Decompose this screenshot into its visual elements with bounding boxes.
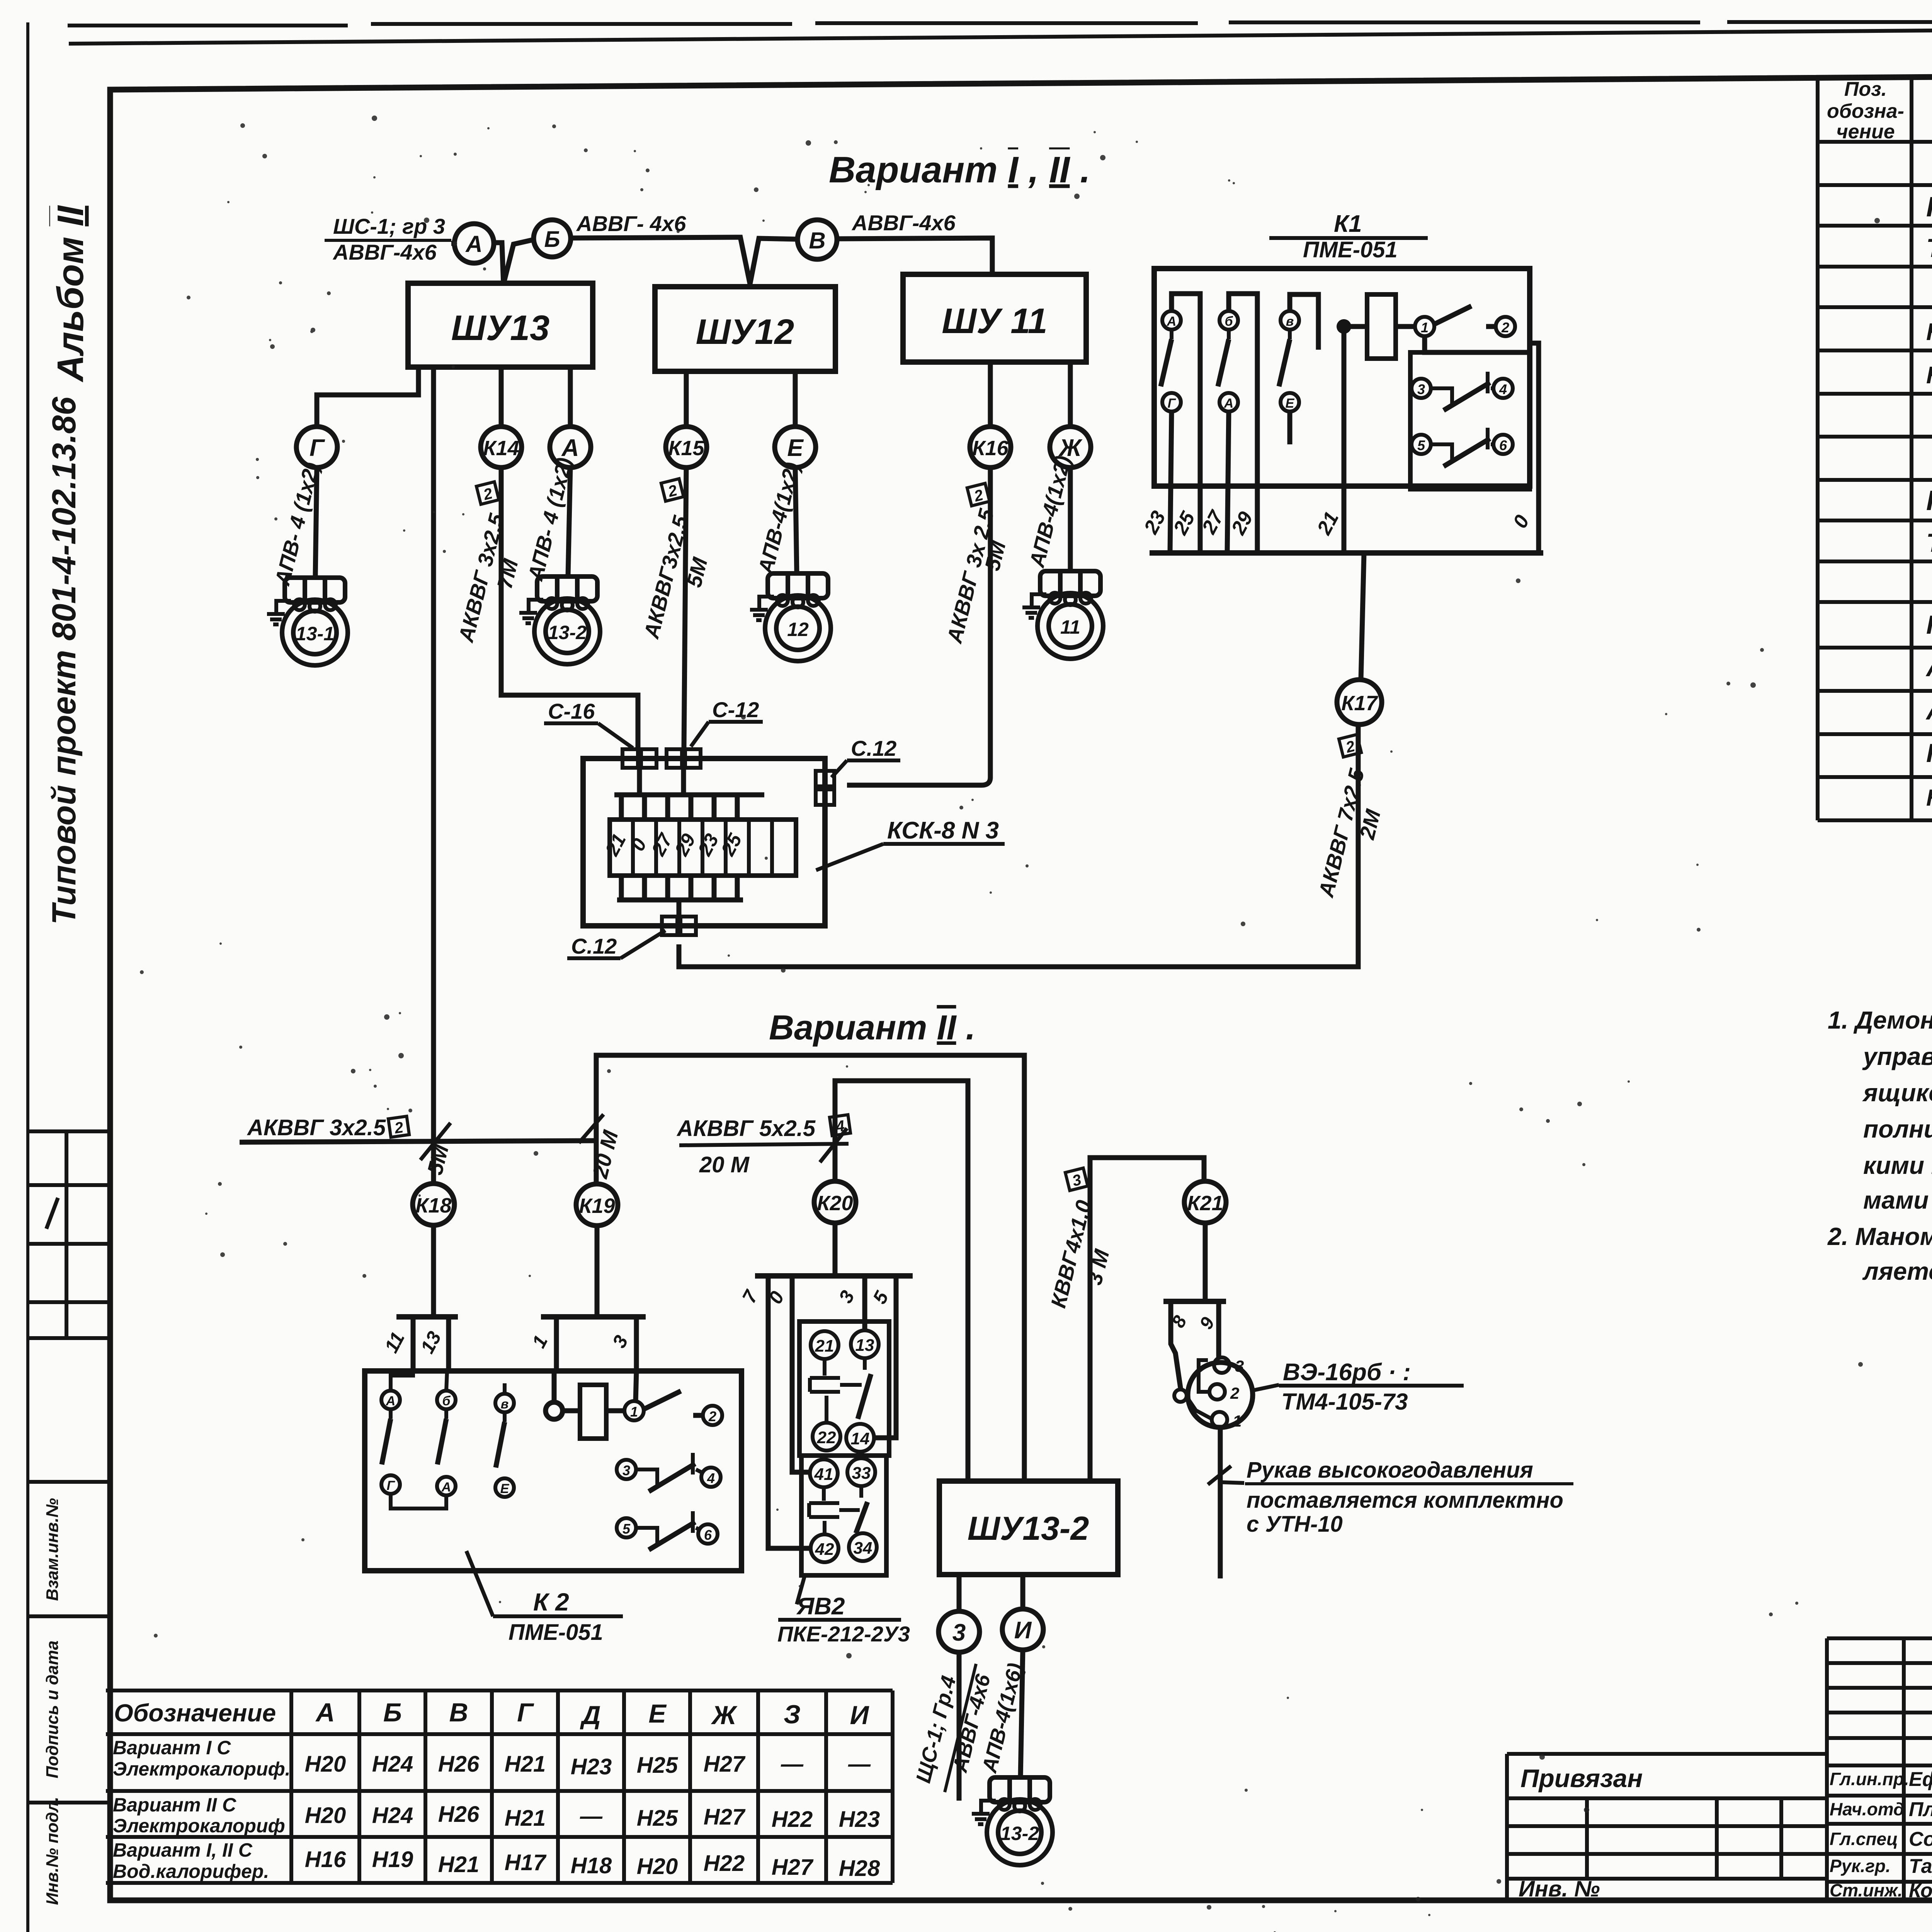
svg-text:Вариант II .: Вариант II . <box>769 1009 975 1047</box>
wire 0 <box>792 1276 810 1472</box>
svg-text:полнить в соответствии со схем: полнить в соответствии со схемами электр… <box>1863 1115 1932 1143</box>
svg-text:Н26: Н26 <box>438 1802 480 1827</box>
svg-text:б: б <box>442 1394 451 1408</box>
wire ШУ11 to Ж <box>1068 362 1073 427</box>
terminal С-12 on box top <box>667 749 701 768</box>
svg-text:5: 5 <box>622 1521 631 1537</box>
contactor К2 box <box>365 1371 742 1571</box>
К1 terminal labels <box>1139 507 1534 539</box>
svg-text:Н16: Н16 <box>305 1847 346 1872</box>
node Б <box>534 220 571 257</box>
node К16 <box>970 427 1011 468</box>
node К18 <box>413 1184 454 1225</box>
svg-text:Н25: Н25 <box>637 1753 678 1778</box>
svg-text:ящике управления установкой УТ: ящике управления установкой УТН-10 поз. … <box>1862 1079 1932 1107</box>
svg-text:Рукав высокогодавления: Рукав высокогодавления <box>1247 1458 1533 1483</box>
svg-text:Н22: Н22 <box>704 1851 745 1876</box>
svg-text:АВВГ-4х6: АВВГ-4х6 <box>332 240 437 264</box>
svg-text:Поз.: Поз. <box>1844 78 1887 100</box>
svg-text:ТУ36.1753-75: ТУ36.1753-75 <box>1926 528 1932 558</box>
wire ШУ13-2 to И <box>1020 1575 1026 1609</box>
svg-text:Н20: Н20 <box>305 1803 346 1828</box>
wire ШУ13 to К14 <box>499 367 504 427</box>
svg-text:К 2: К 2 <box>533 1588 569 1616</box>
svg-text:К15: К15 <box>668 437 704 460</box>
wire feeder to A <box>451 241 454 246</box>
cable mark 2 on К15 wire <box>661 479 684 502</box>
svg-text:Н17: Н17 <box>505 1850 547 1875</box>
svg-text:Коробка соединительная КСК-8: Коробка соединительная КСК-8 <box>1926 485 1932 516</box>
К1 contact 5-6 <box>1412 428 1513 466</box>
svg-text:Инв. №: Инв. № <box>1519 1876 1600 1901</box>
svg-text:А: А <box>315 1698 335 1727</box>
strip top bus and stubs <box>614 768 764 820</box>
label рукав высокого давления <box>1221 1458 1573 1537</box>
wire К19 to К2 bar <box>595 1226 600 1317</box>
svg-text:Н22: Н22 <box>772 1807 813 1832</box>
svg-text:Вариант I С: Вариант I С <box>113 1737 231 1759</box>
svg-text:Альбом II: Альбом II <box>50 205 91 382</box>
label С-12 right <box>832 736 900 777</box>
label С-12 top <box>691 697 763 747</box>
svg-text:Н21: Н21 <box>505 1806 546 1831</box>
tick at К18 <box>420 1123 451 1160</box>
cable label АКВВГ3х2.5 2 <box>247 1115 409 1140</box>
svg-text:АКВВГ 5х2.5: АКВВГ 5х2.5 <box>676 1116 816 1141</box>
wire 3 <box>634 1317 639 1371</box>
motor 12 <box>750 573 831 661</box>
label С-12 bottom <box>567 930 665 958</box>
svg-text:Обозначение: Обозначение <box>114 1699 276 1727</box>
button block ЯВ2 upper <box>799 1321 889 1456</box>
svg-text:АВВГ- 4х6: АВВГ- 4х6 <box>576 211 686 236</box>
svg-text:3: 3 <box>1417 381 1425 397</box>
label ВЭ-16рб / ТМ4-105-73 <box>1253 1359 1464 1415</box>
К1 bottom terminal bus <box>1150 550 1543 556</box>
svg-text:11: 11 <box>1060 616 1080 638</box>
wire К16 down to КСК-8 right clamp <box>847 468 990 785</box>
svg-text:К14: К14 <box>483 437 519 460</box>
svg-text:—: — <box>848 1752 871 1777</box>
svg-text:АКВВГ 7х2.5 мм²: АКВВГ 7х2.5 мм² <box>1925 653 1932 682</box>
wire В to ШУ11 <box>837 238 992 274</box>
svg-text:К19: К19 <box>579 1194 615 1218</box>
wire ШУ12 to Е <box>793 371 798 427</box>
К1 aux contact box <box>1410 352 1530 489</box>
svg-text:ляется комплектно с установ: ляется комплектно с установкой УТН-10. <box>1862 1257 1932 1285</box>
terminal С-12 on box right <box>816 771 834 805</box>
svg-text:Н20: Н20 <box>637 1854 678 1879</box>
svg-text:Н23: Н23 <box>839 1807 880 1832</box>
wire К14 down right to КСК-8 <box>501 468 638 749</box>
svg-text:КСК-8 N 3: КСК-8 N 3 <box>887 817 999 844</box>
cable mark 3 on riser <box>1065 1168 1088 1191</box>
svg-text:Взам.инв.№: Взам.инв.№ <box>43 1498 62 1601</box>
svg-text:Комарова: Комарова <box>1909 1879 1932 1902</box>
wire К21 to ВЭ bar <box>1203 1223 1208 1301</box>
wire 7 <box>768 1276 811 1548</box>
svg-text:12: 12 <box>787 619 809 640</box>
node К14 <box>481 427 522 468</box>
svg-text:3: 3 <box>622 1463 630 1478</box>
svg-text:К21: К21 <box>1187 1192 1223 1215</box>
wire К20 to ЯВ2 bar <box>833 1223 838 1276</box>
svg-text:Н19: Н19 <box>372 1847 413 1872</box>
svg-text:Н21: Н21 <box>438 1852 479 1877</box>
node К17 <box>1337 680 1382 724</box>
svg-text:С-12: С-12 <box>712 697 759 722</box>
svg-text:А: А <box>1224 396 1234 411</box>
svg-text:33: 33 <box>852 1464 871 1483</box>
svg-text:Ст.инж.: Ст.инж. <box>1830 1880 1903 1900</box>
svg-text:2. Манометр электроконтактный: 2. Манометр электроконтактный ВЭ-16рб по… <box>1827 1223 1932 1250</box>
wire 9 <box>1216 1301 1221 1357</box>
tick on hose <box>1208 1466 1231 1485</box>
SPEC TABLE (top right) <box>1818 75 1932 820</box>
svg-text:4: 4 <box>707 1470 715 1486</box>
label К2 / ПМЕ-051 <box>466 1551 623 1645</box>
svg-text:ШУ13-2: ШУ13-2 <box>968 1510 1089 1547</box>
wire ШУ13 to К18 (long riser) <box>431 367 436 1184</box>
wire 3 to ПКЕ <box>862 1276 867 1330</box>
wire А to motor 13-2 <box>568 468 570 577</box>
svg-text:2: 2 <box>1230 1384 1239 1402</box>
svg-text:КабельАКВВГ3х2.5мм²ГОСТ1508-78: КабельАКВВГ3х2.5мм²ГОСТ1508-78*Е м <box>1926 362 1932 389</box>
svg-text:ШС-1; гр 3: ШС-1; гр 3 <box>333 214 445 238</box>
NOTES text <box>1827 1006 1932 1285</box>
svg-text:АКВВГ5х2.5 мм²: АКВВГ5х2.5 мм² <box>1925 696 1932 725</box>
svg-text:20 М: 20 М <box>699 1152 750 1177</box>
svg-text:Кабель АКВВГ 3х2.5мм²ГОСТ150-7: Кабель АКВВГ 3х2.5мм²ГОСТ150-78*Е м <box>1926 785 1932 811</box>
svg-text:ПМЕ-051: ПМЕ-051 <box>1303 237 1398 262</box>
К1 switch column 2 <box>1218 294 1257 553</box>
svg-text:22: 22 <box>817 1428 836 1447</box>
wire ШУ11 to К16 <box>988 362 993 427</box>
wire И to motor 13-2 <box>1020 1650 1023 1777</box>
TITLE BLOCK bottom right <box>1827 1638 1932 1902</box>
svg-text:13-1: 13-1 <box>296 623 334 645</box>
wire 11 <box>411 1317 416 1371</box>
terminal strip inside КСК-8 <box>601 820 796 876</box>
node В <box>798 220 837 259</box>
motor 11 <box>1022 571 1103 659</box>
svg-text:Н27: Н27 <box>704 1804 746 1830</box>
svg-text:Кабель АКВВГ 7х2.5мм²ГОСТ1508-: Кабель АКВВГ 7х2.5мм²ГОСТ1508-78*Ем <box>1926 319 1932 345</box>
svg-text:мами приведенными на листе: мами приведенными на листе 15. <box>1863 1186 1932 1214</box>
svg-text:И: И <box>1014 1617 1032 1644</box>
svg-text:Подпись и дата: Подпись и дата <box>43 1641 62 1779</box>
svg-text:В: В <box>809 228 825 253</box>
svg-text:Г: Г <box>517 1698 534 1727</box>
svg-text:поставляется комплектно: поставляется комплектно <box>1247 1488 1563 1513</box>
wire Г to motor 13-1 <box>315 468 317 578</box>
svg-text:Вариант II С: Вариант II С <box>113 1794 236 1816</box>
svg-text:З: З <box>784 1700 801 1729</box>
svg-text:3: 3 <box>1235 1357 1244 1375</box>
bar over ВЭ-16рб <box>1163 1299 1226 1304</box>
wire ШУ13 to Г <box>317 367 418 427</box>
svg-text:4: 4 <box>1499 381 1507 397</box>
svg-text:К17: К17 <box>1341 692 1378 715</box>
svg-text:Привязан: Привязан <box>1520 1764 1643 1793</box>
svg-text:Соловей: Соловей <box>1909 1828 1932 1850</box>
svg-text:ШУ 11: ШУ 11 <box>942 301 1047 341</box>
svg-text:Гл.ин.пр.: Гл.ин.пр. <box>1830 1769 1909 1789</box>
label С-16 <box>544 699 633 748</box>
wire 8 <box>1171 1301 1181 1390</box>
svg-text:Н26: Н26 <box>438 1752 480 1777</box>
wire below ВЭ-16рб <box>1218 1427 1223 1578</box>
node Ж <box>1050 427 1091 468</box>
svg-text:с УТН-10: с УТН-10 <box>1247 1512 1343 1537</box>
svg-text:Н24: Н24 <box>372 1803 413 1828</box>
Privyazan table <box>1507 1754 1827 1901</box>
К2 switch column 3 <box>495 1383 514 1497</box>
svg-text:С.12: С.12 <box>851 736 896 760</box>
К2 contact 3-4 <box>617 1453 721 1492</box>
svg-text:АВВГ-4х6: АВВГ-4х6 <box>851 211 956 235</box>
svg-text:Н20: Н20 <box>305 1752 346 1777</box>
svg-text:41: 41 <box>814 1465 833 1484</box>
svg-text:Н25: Н25 <box>637 1806 678 1831</box>
svg-text:Г: Г <box>310 435 325 461</box>
svg-text:К20: К20 <box>817 1192 853 1215</box>
strip bottom bus and stubs <box>617 876 743 926</box>
svg-text:Гл.спец: Гл.спец <box>1830 1829 1898 1849</box>
wire 5 <box>874 1276 896 1438</box>
svg-text:чение: чение <box>1836 121 1895 143</box>
wire ШУ13-2 to З <box>957 1575 962 1611</box>
К2 switch column 2 <box>437 1371 456 1495</box>
svg-text:А: А <box>1167 314 1177 329</box>
svg-text:Тарков: Тарков <box>1909 1855 1932 1878</box>
svg-text:ВЭ-16рб · :: ВЭ-16рб · : <box>1283 1359 1411 1386</box>
svg-text:Н18: Н18 <box>571 1853 612 1878</box>
svg-text:5: 5 <box>1417 437 1425 453</box>
pressure gauge ВЭ-16рб <box>1174 1357 1253 1430</box>
wire 1 <box>554 1317 559 1371</box>
top trim scratchy line <box>68 22 1932 26</box>
svg-text:Г: Г <box>1168 396 1177 411</box>
svg-text:К18: К18 <box>415 1194 451 1217</box>
svg-text:С-16: С-16 <box>548 699 595 723</box>
svg-text:Вариант I, II С: Вариант I, II С <box>113 1839 253 1861</box>
svg-text:Е: Е <box>648 1699 667 1728</box>
К2 coil circuit <box>546 1371 722 1439</box>
svg-text:13-2: 13-2 <box>1000 1823 1039 1844</box>
node К19 <box>576 1184 618 1226</box>
svg-text:1. Демонтаж и дополнительный: 1. Демонтаж и дополнительный монтаж в шк… <box>1828 1006 1932 1034</box>
svg-text:Н27: Н27 <box>772 1855 814 1880</box>
svg-text:Е: Е <box>1286 396 1295 411</box>
cable mark 2 on К14 wire <box>476 482 499 505</box>
wire К15 to КСК-8 <box>684 468 686 749</box>
svg-text:ЯВ2: ЯВ2 <box>796 1593 845 1620</box>
К1 switch column 3 <box>1279 294 1318 444</box>
wire ШУ12 to К15 <box>684 371 689 427</box>
contactor К1 box <box>1154 269 1530 486</box>
margin stamp cells <box>28 1482 110 1803</box>
К2 switch column 1 <box>381 1371 446 1509</box>
svg-text:1: 1 <box>1421 320 1429 335</box>
svg-text:Н21: Н21 <box>505 1752 546 1777</box>
OBOZNACHENIE TABLE bottom left <box>106 1690 893 1883</box>
svg-text:АКВВГ 3х2.5: АКВВГ 3х2.5 <box>247 1115 386 1140</box>
feeder label ШС-1 гр3 / АВВГ-4х6 <box>325 214 451 264</box>
node A <box>454 224 494 263</box>
svg-text:ШУ13: ШУ13 <box>451 308 550 348</box>
svg-text:13: 13 <box>855 1336 874 1355</box>
svg-text:Рук.гр.: Рук.гр. <box>1830 1856 1891 1876</box>
svg-text:И: И <box>850 1701 870 1730</box>
node Г <box>296 427 337 468</box>
button block ЯВ2 lower <box>801 1456 886 1575</box>
left thin outer line <box>26 22 29 1932</box>
svg-text:С.12: С.12 <box>571 934 617 958</box>
svg-text:1: 1 <box>630 1404 638 1420</box>
svg-text:Типовой проект 801-4-102.13.86: Типовой проект 801-4-102.13.86 <box>46 396 83 925</box>
node К15 <box>666 427 707 468</box>
svg-text:А: А <box>561 435 579 461</box>
svg-text:КВВГ 4х1.0 мм²: КВВГ 4х1.0 мм² <box>1926 738 1932 768</box>
wire Б to ШУ12 dip to В <box>571 237 798 284</box>
svg-text:Н28: Н28 <box>839 1856 880 1881</box>
svg-text:Ж: Ж <box>711 1701 738 1730</box>
svg-text:34: 34 <box>854 1539 872 1558</box>
wire К19 riser and link to ШУ13-2 <box>596 1055 1024 1481</box>
terminal С-12 on box bottom <box>662 917 696 935</box>
bar over К2 left <box>396 1314 458 1320</box>
svg-text:21: 21 <box>815 1337 834 1355</box>
svg-text:А: А <box>441 1480 451 1495</box>
contactor К1 label <box>1269 211 1428 262</box>
wire Ж to motor 11 <box>1068 468 1073 571</box>
svg-text:Ефремов: Ефремов <box>1909 1768 1932 1791</box>
svg-text:управления механизмами поз 13;: управления механизмами поз 13; поз.11; п… <box>1862 1043 1932 1070</box>
wire К20 riser and link to ШУ13-2 <box>835 1081 968 1481</box>
svg-text:Коробка соединительная КСК-8: Коробка соединительная КСК-8 <box>1926 192 1932 223</box>
node К20 <box>814 1181 856 1223</box>
svg-text:Д: Д <box>580 1701 600 1730</box>
node Е <box>775 427 816 468</box>
svg-text:ТУ36.1753-75: ТУ36.1753-75 <box>1926 233 1932 263</box>
node А <box>550 427 591 468</box>
svg-text:в: в <box>1286 314 1294 329</box>
К1 switch column 1 <box>1161 294 1200 553</box>
tick at К19 <box>579 1114 604 1143</box>
svg-text:К1: К1 <box>1334 211 1362 237</box>
svg-text:Б: Б <box>544 227 560 252</box>
svg-text:Е: Е <box>787 435 804 461</box>
svg-text:ПКЕ-212-2У3: ПКЕ-212-2У3 <box>777 1622 910 1646</box>
wire ШУ13-2 right stub to К21 <box>1090 1158 1204 1481</box>
wire З feeder down <box>957 1652 962 1801</box>
К1 contact 3-4 <box>1412 372 1513 410</box>
svg-text:б: б <box>1225 314 1233 329</box>
box ШУ13-2 <box>939 1481 1118 1575</box>
svg-text:ШУ12: ШУ12 <box>696 312 794 352</box>
svg-text:Вод.калорифер.: Вод.калорифер. <box>113 1861 269 1882</box>
label ЯВ2 / ПКЕ-212-2У3 <box>777 1577 910 1646</box>
svg-text:ТМ4-105-73: ТМ4-105-73 <box>1281 1389 1408 1415</box>
svg-text:обозна-: обозна- <box>1827 100 1904 122</box>
svg-text:13-2: 13-2 <box>548 622 587 643</box>
box ШУ13 <box>408 283 593 367</box>
label КСК-8 N3 <box>816 817 1005 870</box>
margin small grid <box>28 1131 110 1338</box>
svg-text:в: в <box>501 1397 509 1412</box>
svg-text:14: 14 <box>851 1429 870 1448</box>
wire Е to motor 12 <box>795 468 797 573</box>
motor 13-2 <box>519 577 600 664</box>
svg-text:ПМЕ-051: ПМЕ-051 <box>509 1620 603 1645</box>
wire К17 to К1 <box>1361 553 1364 680</box>
cable mark 2 on К17 wire <box>1339 735 1361 757</box>
svg-text:2: 2 <box>708 1408 716 1424</box>
svg-text:Электрокалориф.: Электрокалориф. <box>113 1758 291 1780</box>
svg-text:Н27: Н27 <box>704 1752 746 1777</box>
node И <box>1002 1609 1043 1650</box>
node К21 <box>1184 1181 1226 1223</box>
svg-text:Кабель ГОСТ 1508-78*Е: Кабель ГОСТ 1508-78*Е <box>1926 610 1932 639</box>
bar over ЯВ2 <box>755 1273 913 1279</box>
svg-text:Н24: Н24 <box>372 1752 413 1777</box>
top second trim line <box>69 26 1932 44</box>
wire 13 <box>446 1317 451 1371</box>
svg-text:В: В <box>449 1698 468 1727</box>
svg-text:кими принципиальными управле: кими принципиальными управления механиз- <box>1863 1151 1932 1179</box>
svg-text:Г: Г <box>387 1478 396 1493</box>
wire АКВВГ3х2.5 to К19 riser <box>240 1141 596 1142</box>
svg-text:А: А <box>465 231 482 257</box>
node З <box>939 1611 980 1652</box>
wire ШУ13 to А <box>568 367 573 427</box>
svg-text:1: 1 <box>1233 1412 1242 1430</box>
svg-text:Плохих: Плохих <box>1909 1798 1932 1821</box>
wire К18 to К2 bar <box>431 1225 436 1317</box>
svg-text:Б: Б <box>383 1698 402 1727</box>
wire КСК-8 bottom to К17 riser <box>679 725 1358 967</box>
svg-text:А: А <box>386 1394 396 1408</box>
svg-text:—: — <box>580 1804 603 1829</box>
junction box КСК-8 N3 <box>583 759 825 926</box>
wire A to ШУ13 dip to Б <box>493 240 534 284</box>
bar over К2 right <box>541 1314 646 1320</box>
motor 13-2 (variant II) <box>972 1777 1053 1865</box>
К2 contact 5-6 <box>617 1511 718 1550</box>
svg-text:—: — <box>781 1752 804 1777</box>
svg-text:Электрокалориф: Электрокалориф <box>113 1815 285 1837</box>
tick at К20 <box>820 1128 847 1162</box>
cable label АКВВГ5х2.5 4 / 20М <box>676 1115 850 1177</box>
motor 13-1 <box>267 578 348 665</box>
svg-text:Инв.№ подл.: Инв.№ подл. <box>43 1797 62 1905</box>
svg-text:Н23: Н23 <box>571 1754 612 1779</box>
svg-text:2: 2 <box>1501 320 1509 335</box>
terminal С-16 on box top <box>622 749 656 768</box>
svg-text:42: 42 <box>815 1540 834 1559</box>
К1 coil circuit <box>1337 294 1539 553</box>
box ШУ12 <box>655 287 835 371</box>
svg-text:6: 6 <box>1499 437 1507 453</box>
svg-text:6: 6 <box>704 1527 712 1543</box>
svg-text:К16: К16 <box>972 437 1009 460</box>
cable mark 2 on К16 wire <box>967 483 990 506</box>
svg-text:3: 3 <box>952 1619 966 1646</box>
svg-text:Е: Е <box>500 1481 510 1496</box>
svg-text:Нач.отд: Нач.отд <box>1830 1799 1904 1819</box>
box ШУ11 <box>903 274 1086 362</box>
